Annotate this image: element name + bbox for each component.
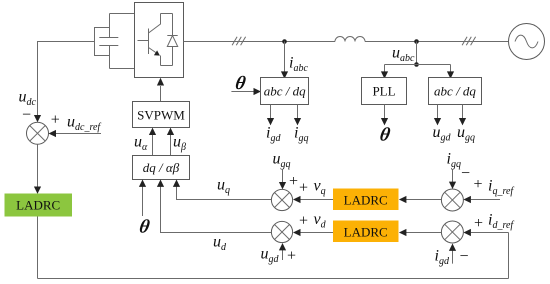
isolation slashes left (232, 37, 237, 46)
block PLL (362, 78, 407, 105)
arrowhead v_q into S2 (293, 196, 301, 203)
wire: i_abc sense drop (284, 42, 286, 72)
inductor L (335, 37, 365, 42)
wire: AC line inverter to inductor (184, 41, 336, 43)
diode D1 bottom lead (172, 47, 174, 66)
block abc/dq current (261, 78, 309, 105)
svg-text:abc / dq: abc / dq (264, 84, 306, 99)
svg-text:+: + (474, 215, 483, 232)
wire: theta into dq/alphabeta (142, 187, 144, 217)
arrowhead u_d into dq/alphabeta (157, 180, 164, 187)
wire: S1 output to LADRC1 (37, 144, 39, 187)
arrowhead i_q_ref into S4 (463, 196, 471, 203)
arrowhead i_gq (294, 118, 301, 125)
svg-text:uq: uq (217, 177, 230, 197)
transistor Q1 gate lead (138, 40, 149, 42)
svg-text:+: + (289, 173, 298, 190)
svg-text:+: + (299, 180, 308, 197)
summer S1 circle (27, 122, 49, 144)
svg-text:ugq: ugq (273, 151, 291, 171)
wire: u_gd output (437, 105, 439, 119)
wire: v_d from LADRC3 (301, 232, 334, 234)
arrowhead u_gq into S2 (279, 182, 286, 189)
svg-text:iq_ref: iq_ref (488, 178, 514, 198)
summer S3 cross (275, 225, 290, 240)
svg-text:−: − (460, 248, 469, 265)
transistor Q1 emitter lead (149, 48, 158, 54)
svg-text:igd: igd (266, 125, 281, 145)
wire: i_q_ref input (471, 199, 500, 201)
summer S5 cross (445, 224, 461, 240)
capacitor C top plate (99, 37, 118, 39)
wire: u_dc_ref input (56, 133, 102, 135)
node: u_abc tap (414, 39, 419, 44)
arrowhead u_gd into S3 (279, 243, 286, 250)
wire: u_alpha into SVPWM (152, 134, 154, 156)
svg-text:uabc: uabc (392, 45, 415, 65)
wire: u_d feedback into dq/alphabeta (161, 187, 272, 233)
block abc/dq voltage (429, 78, 482, 105)
arrowhead u_gq (459, 118, 466, 125)
svg-text:+: + (474, 176, 483, 193)
summer S5 circle (441, 221, 463, 243)
node: sense split (414, 62, 419, 67)
controller LADRC2 (q current loop, orange) (333, 189, 399, 211)
svg-text:θ: θ (138, 216, 152, 237)
svg-text:PLL: PLL (372, 84, 395, 99)
wire: u_beta into SVPWM (170, 134, 172, 156)
summer S3 circle (271, 221, 292, 242)
capacitor C bottom plate (99, 45, 118, 47)
svg-text:+: + (51, 112, 60, 129)
arrowhead into LADRC1 (34, 187, 41, 194)
arrowhead into summer S5 right (463, 229, 471, 236)
arrowhead into summer S1 right (49, 130, 57, 137)
wire: i_d_ref into summer S5 (471, 232, 509, 234)
svg-text:+: + (287, 248, 296, 265)
arrowhead into abc/dq voltage (447, 71, 454, 78)
wire: emitter down lead (160, 56, 162, 66)
svg-text:abc / dq: abc / dq (434, 84, 476, 99)
wire: DC bus left vertical upper (109, 14, 111, 38)
svg-text:LADRC: LADRC (344, 224, 388, 239)
svg-text:LADRC: LADRC (16, 198, 60, 213)
wire: DC bus top rail (110, 13, 135, 15)
wire: feedback rail riser (508, 233, 510, 279)
arrowhead i_gd into S5 (449, 244, 456, 251)
svg-text:ugd: ugd (261, 245, 280, 265)
svg-text:igq: igq (447, 151, 461, 171)
svg-text:ud: ud (213, 234, 227, 254)
svg-text:ugd: ugd (433, 124, 452, 144)
wire: u_abc sense drop (416, 42, 418, 65)
arrowhead i_gq into S4 (449, 182, 456, 189)
summer S1 cross (30, 126, 46, 142)
wire: theta into abc/dq (231, 91, 254, 93)
wire: u_gq into summer S2 (282, 169, 284, 183)
svg-text:LADRC: LADRC (344, 192, 388, 207)
controller LADRC3 (d current loop, orange) (333, 221, 399, 243)
arrowhead u_gd (434, 118, 441, 125)
node: i_abc tap (282, 39, 287, 44)
controller LADRC1 (voltage loop, green) (5, 194, 73, 217)
wire: u_gd into summer S3 (282, 250, 284, 260)
transistor Q1 gate bar (148, 29, 150, 55)
wire: DC bus bottom rail (110, 68, 135, 70)
isolation slashes right (462, 37, 467, 46)
svg-text:iabc: iabc (289, 55, 308, 75)
wire: collector to diode top (161, 13, 173, 15)
wire: sense split horizontal (385, 64, 451, 66)
wire: i_gd into summer S5 (452, 251, 454, 264)
wire: u_q feedback into dq/alphabeta (177, 187, 272, 200)
wire: SVPWM to inverter (160, 86, 162, 102)
svg-text:uβ: uβ (173, 134, 186, 154)
diode D1 cathode bar (167, 35, 177, 37)
svg-text:+: + (299, 213, 308, 230)
wire: DC bus left vertical lower (109, 46, 111, 69)
wire: i_gq into summer S4 (452, 170, 454, 182)
arrowhead u_alpha (149, 128, 156, 135)
arrowhead into PLL (381, 71, 388, 78)
wire: S4 output into LADRC2 (406, 199, 441, 201)
arrowhead into LADRC2 (399, 196, 407, 203)
svg-text:vd: vd (314, 211, 327, 231)
diode D1 top lead (172, 14, 174, 36)
block dq/alphabeta (133, 156, 190, 180)
arrowhead into LADRC3 (399, 229, 407, 236)
svg-text:θ: θ (234, 73, 248, 94)
wire: drop into abc/dq voltage (450, 65, 452, 72)
summer S2 circle (271, 189, 292, 210)
wire: i_gq output (297, 105, 299, 119)
wire: PLL theta output (384, 105, 386, 119)
svg-text:−: − (22, 107, 31, 124)
svg-text:uα: uα (134, 134, 148, 154)
svg-text:igd: igd (435, 248, 450, 268)
DC source bracket (95, 28, 110, 56)
summer S2 cross (275, 193, 290, 208)
diode D1 triangle (167, 36, 177, 47)
wire: emitter to diode bottom (161, 65, 173, 67)
arrowhead PLL theta (381, 118, 388, 125)
arrowhead v_d into S3 (293, 229, 301, 236)
svg-text:udc: udc (19, 89, 37, 109)
wire: drop into PLL (384, 65, 386, 72)
arrowhead i_gd (267, 118, 274, 125)
wire: u_dc sense tap (38, 42, 95, 117)
wire: LADRC1 output down (37, 217, 39, 279)
block SVPWM (133, 102, 190, 128)
wire: u_gq output (462, 105, 464, 119)
svg-text:igq: igq (294, 125, 308, 145)
svg-text:vq: vq (314, 178, 326, 198)
svg-text:dq / αβ: dq / αβ (143, 160, 180, 175)
transistor Q1 collector lead (149, 14, 161, 34)
inverter block outline (135, 3, 184, 78)
svg-text:id_ref: id_ref (488, 212, 514, 232)
wire: i_gd output (270, 105, 272, 119)
AC grid sine wave (515, 35, 538, 48)
arrowhead into inverter bottom (157, 78, 164, 86)
wire: v_q from LADRC2 (301, 199, 334, 201)
svg-text:−: − (461, 165, 470, 182)
wire: bottom feedback rail (38, 278, 509, 280)
svg-text:θ: θ (378, 125, 392, 146)
summer S4 cross (445, 192, 461, 208)
svg-text:SVPWM: SVPWM (137, 108, 185, 123)
arrowhead u_q into dq/alphabeta (173, 180, 180, 187)
arrowhead theta into dq/alphabeta (139, 180, 146, 187)
arrowhead u_beta (167, 128, 174, 135)
wire: S5 output into LADRC3 (406, 232, 441, 234)
wire: AC line inductor to grid (365, 41, 509, 43)
arrowhead into abc/dq current (281, 71, 288, 78)
arrowhead into summer S1 top (34, 115, 41, 122)
svg-text:ugq: ugq (457, 124, 475, 144)
summer S4 circle (441, 189, 463, 211)
transistor Q1 emitter arrowhead (154, 50, 160, 55)
svg-text:udc_ref: udc_ref (67, 114, 101, 134)
arrowhead theta into abc/dq (254, 88, 262, 95)
AC grid source circle (509, 24, 545, 60)
